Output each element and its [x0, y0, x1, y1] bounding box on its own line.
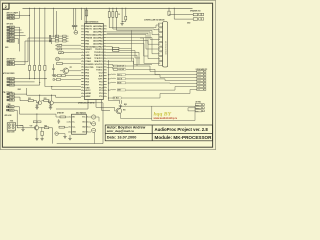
svg-text:XP8 DV5: XP8 DV5	[7, 23, 14, 25]
svg-text:PD6: PD6	[85, 81, 89, 83]
svg-text:C1-: C1-	[72, 122, 75, 124]
wire row3 to XP2	[125, 74, 160, 76]
transistor VT1	[63, 68, 69, 74]
resistor R13 in wire	[113, 50, 119, 52]
capacitor C3 polarized at MCU	[80, 8, 82, 20]
resistor R1 vertical top right	[168, 8, 170, 11]
svg-text:P16: P16	[99, 81, 102, 83]
wire VT8 links	[114, 107, 116, 111]
svg-text:TDO/PC4: TDO/PC4	[94, 51, 103, 54]
connector XS8 row2	[7, 109, 9, 111]
svg-text:C8: C8	[118, 14, 120, 16]
svg-text:DB-15M SOCKET: DB-15M SOCKET	[165, 41, 167, 55]
svg-text:XS2 DB15M: XS2 DB15M	[156, 20, 166, 22]
svg-text:CLK0: CLK0	[10, 38, 14, 40]
wire bus drop verticals left	[29, 8, 31, 65]
svg-text:AVCC: AVCC	[85, 89, 91, 92]
svg-text:PD0/RXD: PD0/RXD	[85, 64, 94, 66]
svg-text:SDA/PC1: SDA/PC1	[94, 60, 102, 63]
wire bundle resistors to XS2	[109, 27, 156, 29]
wire MCU right mid runs	[107, 60, 134, 62]
inductor L4 row6	[108, 89, 110, 91]
svg-text:STBY: STBY	[197, 83, 201, 85]
resistor R4 vertical	[116, 12, 118, 18]
svg-text:PB4/SS: PB4/SS	[85, 36, 92, 39]
connector XP2 rows	[197, 70, 203, 72]
svg-text:PB5: PB5	[85, 40, 89, 42]
DA1 pins left	[68, 116, 72, 118]
svg-text:P13: P13	[99, 90, 102, 92]
resistor R12 in wire	[113, 47, 119, 49]
svg-text:IN1: IN1	[72, 117, 75, 119]
svg-text:P12: P12	[99, 93, 102, 95]
capacitor C15 polarized	[55, 132, 59, 136]
jack XS11	[92, 122, 96, 126]
wire row2 to XP2	[126, 68, 155, 70]
svg-text:VCC: VCC	[85, 52, 90, 54]
resistor R28	[59, 126, 64, 128]
wire reset run right	[28, 37, 52, 39]
diode VD3	[59, 52, 64, 54]
inductor L2 row4	[108, 78, 110, 80]
wire XP11 wires	[14, 93, 26, 95]
wire collector up	[36, 123, 38, 126]
inductor L3 row5	[108, 82, 110, 84]
wire drop x174	[173, 8, 175, 19]
svg-text:OC2: OC2	[99, 73, 103, 75]
transistor VT8	[116, 108, 122, 114]
svg-text:SGND: SGND	[197, 77, 201, 79]
wire XS8 row2 to VT7 base	[14, 109, 17, 111]
svg-text:P15: P15	[99, 84, 102, 86]
wire vertical x131.5	[131, 30, 133, 61]
resistor R23	[44, 100, 49, 102]
resistor R2 vertical	[108, 12, 110, 18]
svg-text:OU1: OU1	[82, 122, 85, 124]
sheet number box 2	[2, 3, 9, 9]
MCU pins right	[103, 25, 107, 27]
svg-text:ADC4/PA4: ADC4/PA4	[93, 36, 103, 39]
svg-text:MUTE: MUTE	[118, 83, 122, 85]
wire row6 to XP2	[125, 89, 175, 91]
svg-text:PD7: PD7	[85, 84, 89, 86]
wire vertical x135	[134, 51, 136, 59]
resistor R24	[44, 127, 48, 129]
svg-text:DEC0: DEC0	[10, 78, 14, 80]
resistor R25 vertical	[41, 131, 43, 135]
transistor VT5	[38, 101, 42, 105]
wire row4 to XP2	[125, 78, 165, 80]
wire XP10 row wires with bus taps	[14, 78, 47, 80]
ground R25	[41, 137, 43, 139]
wire XS8 row1 to DA1 area	[14, 106, 20, 108]
resistor R19 row2	[113, 68, 117, 70]
svg-text:RECR: RECR	[196, 107, 200, 109]
title block frame	[105, 125, 212, 141]
wire row1 to XP2	[126, 65, 150, 67]
svg-text:RECL: RECL	[196, 104, 200, 106]
wire jacks ground down	[93, 132, 95, 143]
wire feed row1	[107, 64, 113, 66]
wire vertical distribution x108.4	[107, 60, 109, 101]
svg-text:TOSC2: TOSC2	[96, 67, 102, 69]
connector XP11 row1	[7, 93, 9, 95]
svg-text:Date: 16.07.2000: Date: 16.07.2000	[107, 136, 137, 140]
wire watermark box route	[194, 106, 196, 120]
wire row7 bottom L-route	[108, 97, 113, 99]
svg-text:OU2: OU2	[82, 127, 85, 129]
connector XP12 row1	[49, 35, 51, 37]
jack XS10	[92, 115, 96, 119]
fuse FU1	[86, 8, 88, 23]
wire resistor bottoms to port rows	[29, 70, 31, 79]
svg-text:2: 2	[5, 5, 7, 9]
wire drop x53.5 to XP row	[53, 8, 55, 37]
svg-text:OUTL: OUTL	[197, 71, 201, 73]
crystal BQ1 circuit	[121, 8, 123, 19]
svg-text:PB6: PB6	[85, 43, 89, 45]
svg-text:AREF: AREF	[85, 95, 91, 98]
svg-text:INT2: INT2	[9, 110, 13, 112]
svg-text:CT25: CT25	[10, 94, 14, 96]
connector XS2 body	[163, 22, 168, 67]
wire vertical x143.6	[143, 38, 145, 56]
svg-text:SCL/PC0: SCL/PC0	[95, 64, 103, 66]
connector XP3 rows	[195, 104, 201, 106]
svg-text:ADC5/PA5: ADC5/PA5	[93, 39, 102, 42]
svg-text:OUT_R: OUT_R	[118, 79, 123, 81]
svg-text:C2+: C2+	[72, 127, 75, 129]
wire row5 to XP2	[125, 82, 170, 84]
wire run y58.1	[107, 57, 134, 59]
wire VCC into MCU	[84, 8, 86, 23]
capacitor C1	[72, 8, 74, 25]
wire MCU bottom exits	[87, 100, 89, 110]
svg-text:CONTROLLER: CONTROLLER	[144, 20, 156, 22]
svg-text:PD1/TXD: PD1/TXD	[85, 67, 94, 69]
svg-text:GND: GND	[85, 55, 90, 57]
wire cluster links	[53, 102, 56, 104]
transistor VT6	[50, 101, 54, 105]
resistor R10	[57, 63, 63, 65]
svg-text:ADC1/PA1: ADC1/PA1	[93, 28, 102, 31]
svg-text:MUTE: MUTE	[197, 80, 201, 82]
label row7	[113, 97, 121, 99]
svg-text:VT1: VT1	[70, 67, 73, 69]
svg-text:PB0/T0: PB0/T0	[85, 26, 91, 28]
resistor R3 vertical	[112, 12, 114, 18]
wire direct MCU-XS2 staircase	[107, 37, 152, 39]
svg-text:RESET: RESET	[85, 49, 92, 51]
svg-text:TCK/PC2: TCK/PC2	[94, 58, 102, 60]
svg-text:RST: RST	[10, 61, 13, 63]
connector XP9 row2	[7, 64, 9, 66]
svg-text:TMS/PC3: TMS/PC3	[94, 55, 102, 57]
svg-text:www.audiohobby.ru: www.audiohobby.ru	[154, 117, 178, 120]
wire DIN out	[16, 124, 23, 126]
MCU pins left	[81, 25, 85, 27]
capacitor C12 with ground	[36, 104, 38, 105]
crystal BQ2 bottom	[119, 100, 121, 104]
svg-text:PB1/T1: PB1/T1	[85, 29, 91, 31]
svg-text:TOSC1: TOSC1	[96, 70, 102, 72]
svg-text:GND: GND	[197, 89, 200, 91]
connector XP11 row2	[7, 96, 9, 98]
svg-text:Module: MK-PROCESSOR: Module: MK-PROCESSOR	[155, 135, 213, 140]
wire DA1 jack feeds	[90, 116, 92, 118]
wire feed row2	[107, 66, 113, 68]
svg-text:PB3/OC0: PB3/OC0	[85, 35, 93, 37]
svg-text:ADC2/PA2: ADC2/PA2	[93, 31, 102, 34]
capacitor C5 polarized	[56, 57, 60, 61]
wire emitter down to ground	[36, 130, 38, 138]
svg-text:GND: GND	[85, 87, 90, 89]
connector XP9 row1	[7, 61, 9, 63]
svg-text:OU3: OU3	[82, 132, 85, 134]
wire long run y86.5	[44, 79, 46, 87]
svg-text:ADC7/PA7: ADC7/PA7	[93, 45, 102, 48]
wire to base	[17, 127, 34, 129]
connector XP8 rows	[7, 26, 9, 28]
svg-text:OUTR: OUTR	[197, 74, 201, 76]
connector row A	[54, 75, 56, 77]
svg-text:INT1: INT1	[9, 106, 13, 108]
wire bottom long run	[57, 143, 103, 145]
ground stub2	[69, 135, 71, 137]
wire XP7 to right	[14, 14, 29, 16]
inductor L1 row3	[108, 74, 110, 76]
svg-text:ADC6/PA6: ADC6/PA6	[93, 42, 102, 45]
svg-text:PD2: PD2	[85, 70, 89, 72]
svg-text:PD3: PD3	[85, 73, 89, 75]
wire base junction right	[41, 127, 42, 128]
connector XP12 row2	[49, 38, 51, 40]
wire MCU lower-left runs	[55, 95, 57, 97]
svg-text:TDI/PC5: TDI/PC5	[95, 49, 102, 51]
wire XP9 to MCU	[14, 61, 28, 63]
connector XS2 pin boxes	[159, 23, 163, 27]
svg-text:XTAL2: XTAL2	[85, 57, 91, 60]
MCU DD1 body	[85, 24, 104, 100]
resistor R22	[28, 100, 33, 102]
resistor R27	[60, 116, 65, 118]
connector row B	[53, 79, 55, 81]
wire right vertical	[52, 128, 54, 144]
svg-text:STBY: STBY	[118, 90, 122, 92]
svg-text:XTAL1: XTAL1	[85, 60, 91, 63]
wire run y52.3	[107, 51, 139, 53]
connector XS3 row2	[193, 18, 197, 20]
svg-text:BQ2: BQ2	[124, 104, 127, 106]
wire long run y89.5	[51, 87, 53, 90]
svg-text:R23: R23	[44, 98, 47, 100]
diode VD2	[57, 48, 62, 50]
ground DIN	[22, 125, 24, 128]
svg-text:R22: R22	[28, 98, 31, 100]
svg-text:+12V: +12V	[197, 86, 200, 88]
resistor R14 row1	[113, 65, 117, 67]
svg-text:R30: R30	[123, 110, 126, 112]
ground DA1 area	[64, 134, 66, 136]
svg-text:DEC2: DEC2	[10, 85, 14, 87]
capacitor C2	[75, 8, 77, 25]
wire +5V top bus	[23, 7, 193, 9]
svg-text:AudioProc Project ver. 2.8: AudioProc Project ver. 2.8	[155, 127, 209, 132]
resistor network R5-R8 inline	[28, 65, 30, 70]
capacitor C16 with ground	[50, 104, 52, 105]
diode VD1	[57, 44, 62, 46]
capacitor C6 with ground	[53, 64, 55, 68]
svg-text:amir_dep@mail.ru: amir_dep@mail.ru	[107, 129, 134, 133]
page background	[0, 0, 216, 150]
wire XP12 vertical	[68, 36, 70, 45]
wire run y55.2	[107, 54, 137, 56]
svg-text:DEC1: DEC1	[10, 81, 14, 83]
svg-text:GND: GND	[196, 111, 199, 113]
svg-text:PD5: PD5	[85, 78, 89, 80]
wire XP3 feeds	[188, 107, 195, 109]
connector XS3 row1	[193, 13, 197, 15]
svg-text:ADC3/PA3: ADC3/PA3	[93, 34, 102, 37]
opamp DA1 body	[72, 114, 87, 134]
ground VT7 emitter	[36, 137, 38, 139]
capacitor C14	[58, 119, 60, 121]
svg-text:GND0: GND0	[10, 41, 15, 43]
wire XP8 outputs	[14, 26, 19, 28]
connector XP11 row3	[7, 99, 9, 101]
wire speaker feeds	[169, 14, 193, 16]
connector XP12 row3	[49, 40, 51, 42]
jack XS12	[92, 128, 96, 132]
svg-text:CT26: CT26	[10, 97, 14, 99]
label boxes R31 C17	[33, 121, 37, 123]
svg-text:ICP1: ICP1	[98, 78, 102, 80]
svg-text:P11: P11	[99, 96, 102, 98]
connector XP10 rows	[7, 78, 9, 80]
svg-text:VT7: VT7	[30, 126, 33, 128]
connector XS14 COM DIN	[7, 123, 16, 130]
connector XS8 row1	[7, 106, 9, 108]
connector XP7 row1	[7, 15, 9, 17]
svg-text:PB2: PB2	[85, 32, 89, 34]
svg-text:ADC0/PA0: ADC0/PA0	[93, 25, 102, 28]
wire vertical x26.7	[26, 88, 28, 94]
connector XP7 row2	[7, 17, 9, 19]
svg-text:OUT_L: OUT_L	[118, 74, 123, 76]
svg-text:AGND: AGND	[85, 92, 91, 95]
